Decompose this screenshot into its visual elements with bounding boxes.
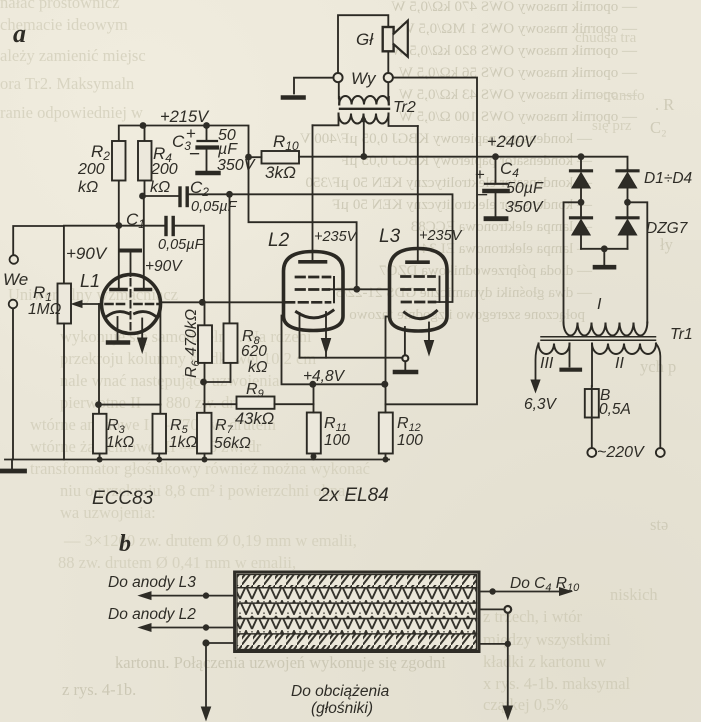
svg-text:ależy zamienić miejsc: ależy zamienić miejsc bbox=[0, 46, 146, 65]
svg-text:L3: L3 bbox=[379, 226, 401, 247]
svg-text:— opornik masowy OWS 470 kΩ/0,: — opornik masowy OWS 470 kΩ/0,5 W bbox=[390, 0, 638, 15]
svg-text:Tr1: Tr1 bbox=[670, 326, 693, 343]
svg-text:43kΩ: 43kΩ bbox=[235, 410, 274, 428]
svg-text:— 3×1200 zw. drutem Ø 0,19 mm: — 3×1200 zw. drutem Ø 0,19 mm w emalii, bbox=[63, 531, 357, 550]
svg-text:L2: L2 bbox=[268, 230, 290, 251]
svg-text:ranie odpowiedniej w: ranie odpowiedniej w bbox=[0, 103, 143, 122]
svg-text:C₂: C₂ bbox=[650, 118, 667, 137]
svg-text:się prz: się prz bbox=[592, 118, 632, 134]
svg-text:100: 100 bbox=[324, 432, 350, 449]
svg-text:niskich: niskich bbox=[610, 585, 658, 604]
svg-text:~220V: ~220V bbox=[597, 444, 645, 461]
svg-text:-transfo: -transfo bbox=[598, 88, 645, 104]
svg-text:We: We bbox=[3, 270, 28, 289]
svg-text:µF: µF bbox=[217, 141, 238, 158]
svg-text:czątkej 0,5%: czątkej 0,5% bbox=[483, 695, 568, 714]
svg-text:Gł: Gł bbox=[356, 30, 374, 49]
svg-text:+235V: +235V bbox=[314, 229, 358, 245]
svg-text:. R: . R bbox=[655, 95, 674, 114]
svg-text:kΩ: kΩ bbox=[78, 179, 98, 196]
svg-text:(głośniki): (głośniki) bbox=[311, 700, 373, 717]
svg-text:+90V: +90V bbox=[145, 258, 183, 275]
svg-text:200: 200 bbox=[150, 161, 178, 178]
svg-text:nałac prostownicz: nałac prostownicz bbox=[0, 0, 120, 12]
svg-text:między wszystkimi: między wszystkimi bbox=[483, 630, 611, 649]
svg-text:— kondensator papierowy KBGJ 0: — kondensator papierowy KBGJ 0,05 µF bbox=[341, 153, 593, 169]
svg-text:— dwa głośniki dynamiczne GDS: — dwa głośniki dynamiczne GDS 21-22/5 bbox=[336, 285, 593, 301]
svg-text:3kΩ: 3kΩ bbox=[265, 163, 296, 182]
svg-text:b: b bbox=[119, 531, 131, 557]
svg-text:ora Tr2. Maksymaln: ora Tr2. Maksymaln bbox=[0, 74, 134, 93]
svg-text:2x EL84: 2x EL84 bbox=[318, 485, 389, 506]
svg-text:1kΩ: 1kΩ bbox=[169, 434, 197, 451]
svg-text:ych p: ych p bbox=[640, 357, 676, 376]
svg-text:Tr2: Tr2 bbox=[393, 99, 416, 116]
svg-text:56kΩ: 56kΩ bbox=[214, 435, 251, 452]
svg-text:200: 200 bbox=[77, 161, 105, 178]
svg-text:350V: 350V bbox=[217, 157, 256, 174]
svg-text:— kondensator elektrolityczny: — kondensator elektrolityczny KEN 50 µF bbox=[332, 197, 593, 213]
svg-text:+90V: +90V bbox=[66, 244, 108, 263]
svg-text:+240V: +240V bbox=[487, 133, 537, 151]
svg-text:— opornik masowy OWS 56 kΩ/0,5: — opornik masowy OWS 56 kΩ/0,5 W bbox=[398, 65, 638, 81]
svg-text:III: III bbox=[540, 355, 554, 372]
svg-text:L1: L1 bbox=[80, 271, 100, 291]
svg-text:−: − bbox=[189, 144, 200, 165]
svg-text:Wy: Wy bbox=[351, 69, 377, 88]
svg-text:Do anody L2: Do anody L2 bbox=[108, 606, 196, 623]
svg-text:transformator głośnikowy równi: transformator głośnikowy również można w… bbox=[30, 459, 370, 478]
svg-text:620: 620 bbox=[241, 343, 267, 360]
svg-text:1kΩ: 1kΩ bbox=[106, 434, 134, 451]
svg-text:+235V: +235V bbox=[419, 228, 463, 244]
svg-text:ECC83: ECC83 bbox=[92, 488, 154, 509]
svg-text:1MΩ: 1MΩ bbox=[28, 301, 62, 318]
svg-text:350V: 350V bbox=[505, 199, 544, 216]
svg-text:DZG7: DZG7 bbox=[646, 220, 689, 237]
svg-text:Do obciążenia: Do obciążenia bbox=[291, 683, 390, 700]
svg-text:−: − bbox=[477, 185, 488, 206]
svg-text:II: II bbox=[615, 355, 624, 372]
svg-text:x rys. 4-1b. maksymal: x rys. 4-1b. maksymal bbox=[483, 674, 631, 693]
svg-text:I: I bbox=[597, 296, 602, 313]
svg-text:ły: ły bbox=[660, 235, 674, 254]
svg-text:50µF: 50µF bbox=[506, 180, 544, 197]
svg-text:+4,8V: +4,8V bbox=[303, 368, 346, 385]
svg-text:a: a bbox=[13, 19, 26, 48]
svg-text:kładki z kartonu w: kładki z kartonu w bbox=[483, 652, 606, 671]
svg-text:— kondensator papierowy KBGJ 0: — kondensator papierowy KBGJ 0,05 µF/400… bbox=[300, 131, 593, 147]
svg-text:kΩ: kΩ bbox=[248, 359, 268, 376]
svg-text:+: + bbox=[186, 124, 196, 143]
svg-text:stə: stə bbox=[650, 515, 668, 534]
svg-text:R6 470kΩ: R6 470kΩ bbox=[183, 309, 202, 378]
svg-text:100: 100 bbox=[397, 432, 423, 449]
svg-text:0,05µF: 0,05µF bbox=[191, 199, 238, 215]
svg-text:— kondensator elektrolityczny: — kondensator elektrolityczny KEN 50 µF/… bbox=[305, 175, 593, 191]
svg-text:D1÷D4: D1÷D4 bbox=[644, 170, 693, 187]
svg-text:0,05µF: 0,05µF bbox=[158, 237, 205, 253]
svg-text:6,3V: 6,3V bbox=[524, 396, 558, 413]
svg-text:chudsa tra: chudsa tra bbox=[575, 30, 637, 46]
svg-text:88 zw. drutem Ø 0,41 mm w emal: 88 zw. drutem Ø 0,41 mm w emalii, bbox=[58, 553, 296, 572]
svg-text:+: + bbox=[475, 165, 485, 184]
svg-text:z rys. 4-1b.: z rys. 4-1b. bbox=[62, 680, 136, 699]
svg-text:Do anody L3: Do anody L3 bbox=[108, 574, 196, 591]
svg-text:kΩ: kΩ bbox=[150, 179, 170, 196]
svg-text:0,5A: 0,5A bbox=[599, 401, 631, 418]
svg-text:kartonu. Połączenia uzwojeń wy: kartonu. Połączenia uzwojeń wykonuje się… bbox=[115, 653, 446, 672]
